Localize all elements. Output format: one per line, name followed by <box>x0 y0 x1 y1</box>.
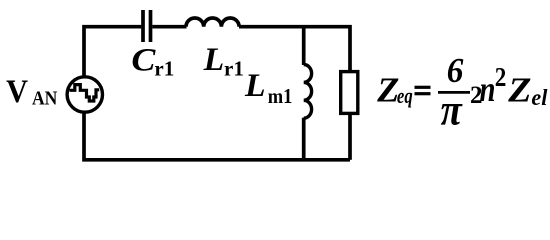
svg-text:L: L <box>244 67 266 104</box>
wire Lm1 branch top <box>302 27 306 65</box>
inductor Lr1 <box>186 18 239 27</box>
svg-text:π: π <box>441 85 463 134</box>
wire Zeq box bottom to rail <box>348 113 352 159</box>
label Cr1 <box>131 42 174 81</box>
source VAN circle <box>67 77 102 112</box>
svg-text:r1: r1 <box>224 57 244 81</box>
wire inductor to top-right corner, down to box top <box>239 27 350 72</box>
svg-text:L: L <box>203 41 225 78</box>
impedance Zeq box <box>341 72 358 114</box>
svg-text:r1: r1 <box>154 57 174 81</box>
svg-text:eq: eq <box>397 84 413 109</box>
svg-text:AN: AN <box>32 88 58 110</box>
svg-text:V: V <box>6 73 28 109</box>
wire Lm1 branch bottom <box>302 118 306 160</box>
wire top-left (corner from source up and right to capacitor) <box>84 27 141 77</box>
label VAN <box>6 73 58 110</box>
wire source bottom to bottom rail, rail to right corner <box>84 112 350 160</box>
svg-text:el: el <box>531 84 548 110</box>
label Lm1 <box>244 67 292 108</box>
wire capacitor to inductor <box>152 25 186 29</box>
inductor Lm1 <box>304 65 312 119</box>
svg-text:Z: Z <box>376 70 399 109</box>
source VAN stepped waveform <box>70 85 100 101</box>
svg-text:Z: Z <box>507 71 531 109</box>
svg-text:2: 2 <box>495 64 507 93</box>
label Zeq formula <box>376 52 548 134</box>
label Lr1 <box>203 41 244 80</box>
capacitor Cr1 <box>143 10 151 42</box>
svg-text:C: C <box>131 42 156 78</box>
svg-text:n: n <box>480 70 496 110</box>
svg-text:m1: m1 <box>268 85 293 108</box>
